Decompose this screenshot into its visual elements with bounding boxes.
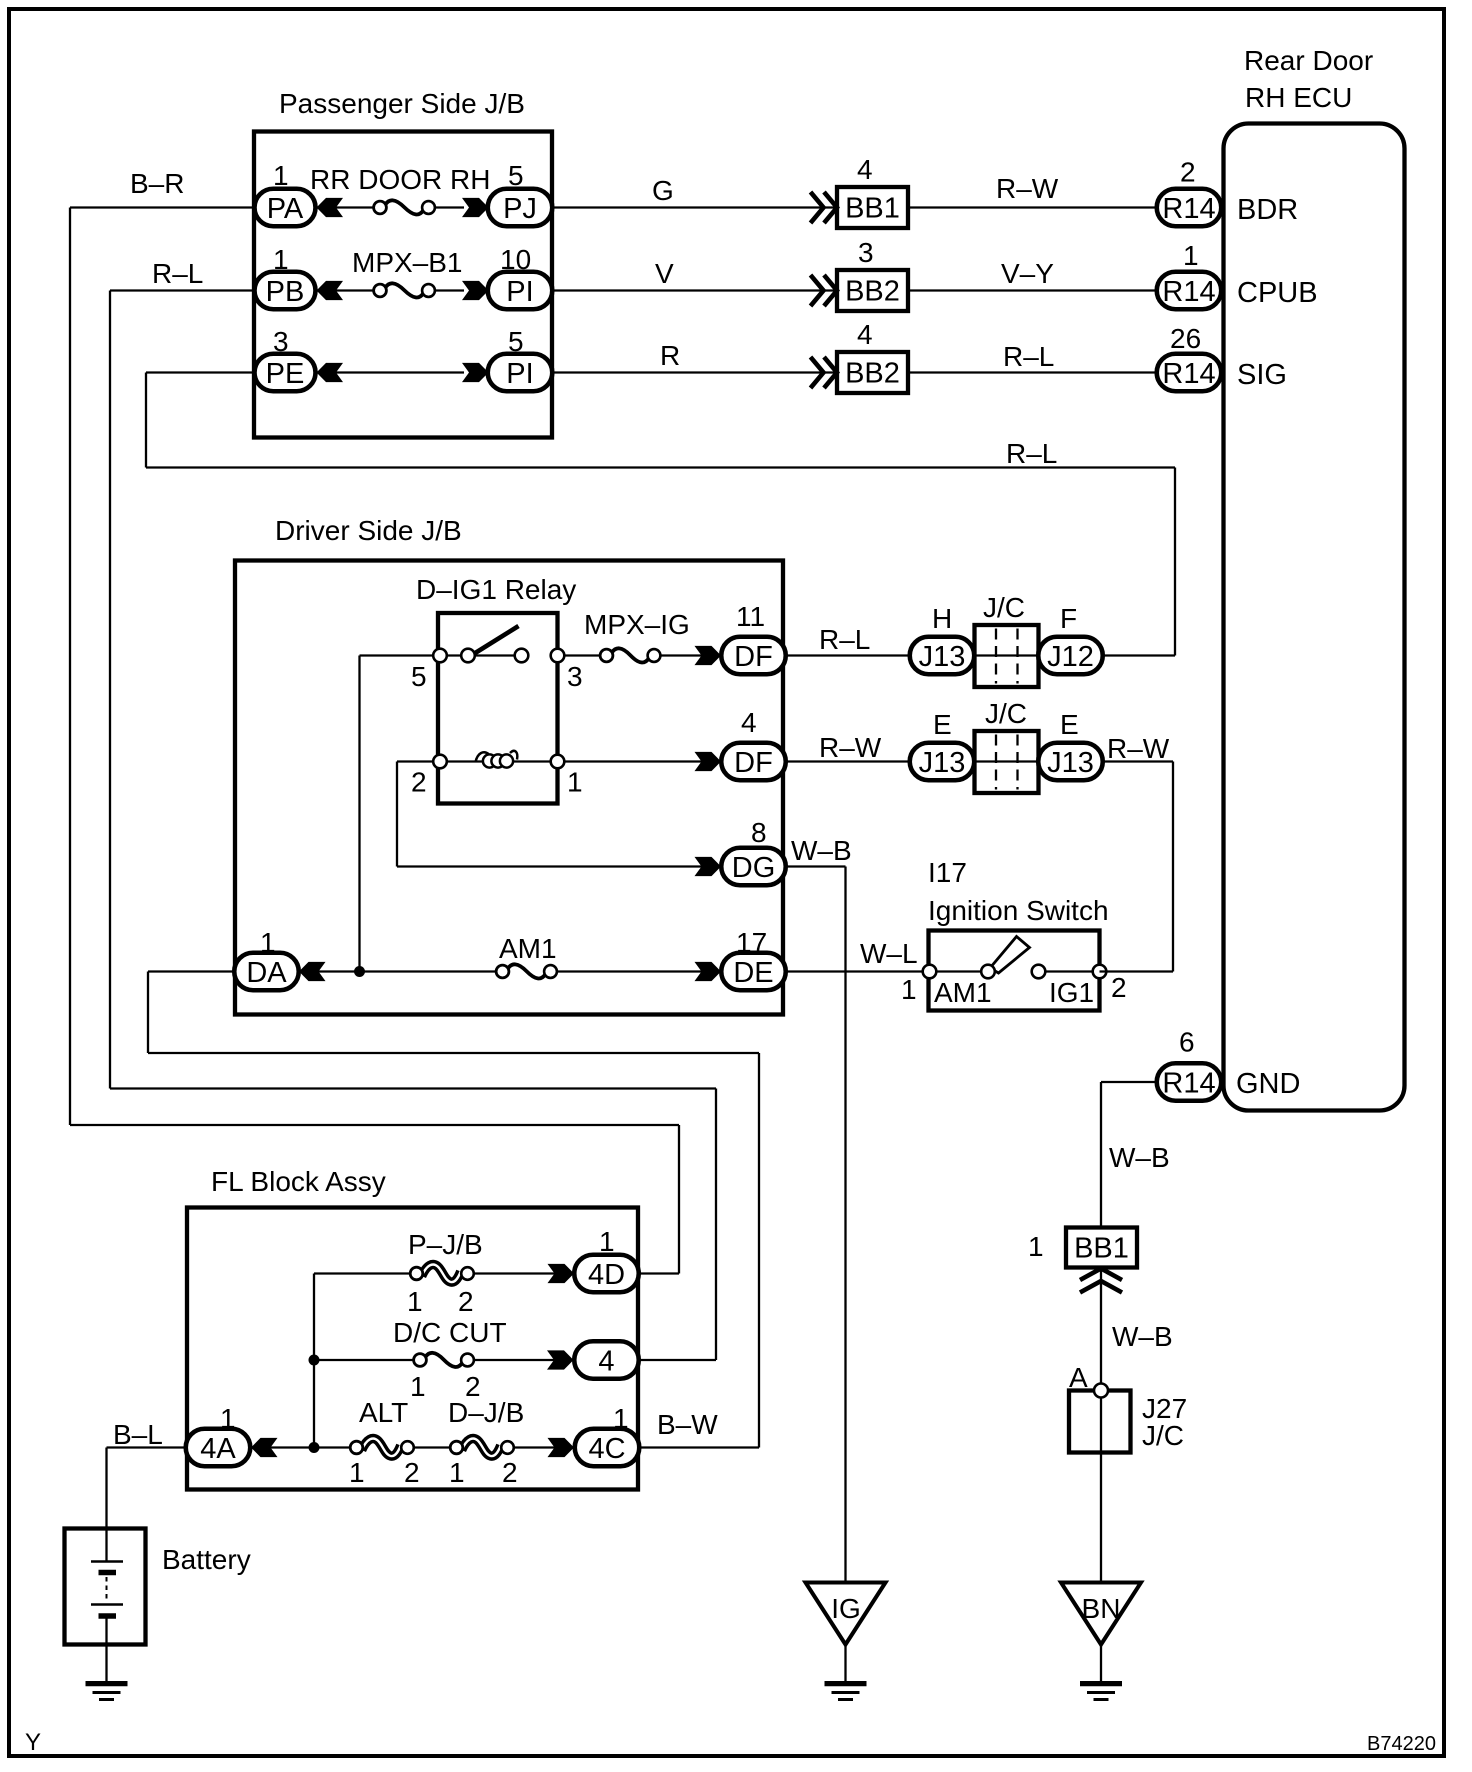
wire label R-L above PE run [1006, 438, 1057, 469]
svg-text:1: 1 [260, 927, 276, 958]
connector 4C pin 1 [548, 1403, 640, 1466]
junction block Passenger Side J/B [254, 88, 552, 438]
svg-text:4D: 4D [588, 1259, 625, 1291]
svg-text:R14: R14 [1162, 276, 1215, 308]
svg-text:3: 3 [273, 326, 289, 357]
svg-text:B–R: B–R [130, 168, 184, 199]
svg-text:5: 5 [411, 661, 427, 692]
svg-text:10: 10 [500, 244, 531, 275]
svg-text:4A: 4A [200, 1433, 236, 1465]
svg-text:Driver Side J/B: Driver Side J/B [275, 515, 462, 546]
svg-text:1: 1 [1028, 1231, 1044, 1262]
svg-text:J12: J12 [1047, 641, 1094, 673]
wire 4D to routing [639, 1272, 680, 1274]
svg-text:E: E [1060, 709, 1079, 740]
connector PI row3 pin 5 [488, 326, 553, 391]
svg-text:4: 4 [857, 319, 873, 350]
node junction D/C CUT [309, 1355, 320, 1366]
connector PA pin 1 [255, 160, 316, 226]
connector PI pin 10 [488, 244, 553, 309]
svg-text:V: V [655, 258, 674, 289]
fusible link P-J/B pins 1 2 [407, 1229, 483, 1317]
svg-text:R–L: R–L [819, 624, 870, 655]
connector PE pin 3 [255, 326, 316, 391]
wire GND R14 to BB1 [1101, 1082, 1157, 1228]
wire R PI to BB2 [552, 340, 837, 373]
connector R14 pin 2 BDR [1157, 157, 1222, 227]
svg-text:5: 5 [508, 326, 524, 357]
svg-text:J13: J13 [919, 641, 966, 673]
connector J13 pin E left [910, 709, 975, 780]
fuse AM1 [496, 933, 557, 978]
chevrons below BB1 [1080, 1269, 1122, 1293]
junction connector J/C upper [975, 592, 1039, 687]
svg-text:P–J/B: P–J/B [408, 1229, 483, 1260]
arrow into PI [462, 281, 489, 300]
svg-text:DG: DG [732, 852, 776, 884]
wire relay pin5 to node A [360, 656, 434, 972]
connector R14 pin 26 SIG [1157, 323, 1222, 391]
node junction on AM1 wire [354, 966, 365, 977]
wire ignition pin2 up to R-W [1100, 970, 1174, 972]
svg-text:J/C: J/C [983, 592, 1025, 623]
svg-text:Passenger Side J/B: Passenger Side J/B [279, 88, 525, 119]
svg-text:Rear Door: Rear Door [1244, 45, 1373, 76]
svg-text:BB2: BB2 [845, 358, 900, 390]
svg-text:BB1: BB1 [845, 193, 900, 225]
svg-text:PI: PI [506, 276, 533, 308]
svg-text:CPUB: CPUB [1237, 277, 1318, 309]
connector 4D pin 1 [548, 1226, 639, 1292]
wire FL internal vertical [313, 1274, 315, 1448]
arrow into PE [317, 363, 344, 382]
wire relay pin3 to DF [564, 654, 721, 656]
svg-text:D–J/B: D–J/B [448, 1397, 524, 1428]
svg-text:1: 1 [613, 1403, 629, 1434]
svg-text:IG1: IG1 [1049, 977, 1094, 1008]
svg-text:AM1: AM1 [499, 933, 557, 964]
wire P-J/B row [314, 1272, 574, 1274]
svg-text:1: 1 [349, 1457, 365, 1488]
svg-text:2: 2 [1111, 972, 1127, 1003]
svg-text:ALT: ALT [359, 1397, 408, 1428]
svg-text:8: 8 [751, 817, 767, 848]
wire coil to DF pin4 [564, 760, 721, 762]
svg-text:GND: GND [1236, 1068, 1300, 1100]
svg-text:4: 4 [598, 1346, 614, 1378]
fusible link ALT pins 1 2 [349, 1397, 420, 1488]
svg-text:BDR: BDR [1237, 194, 1298, 226]
svg-text:5: 5 [508, 160, 524, 191]
wire W-L DE to ignition switch [786, 938, 930, 972]
svg-text:2: 2 [458, 1286, 474, 1317]
svg-text:W–B: W–B [1112, 1321, 1173, 1352]
svg-text:Ignition Switch: Ignition Switch [928, 895, 1109, 926]
wire G PJ to BB1 [552, 175, 837, 208]
svg-text:DA: DA [246, 957, 287, 989]
connector J13 pin H [910, 603, 975, 674]
svg-text:1: 1 [407, 1286, 423, 1317]
ground IG [806, 1583, 886, 1700]
connector R14 pin 6 GND [1157, 1027, 1222, 1101]
svg-text:RH ECU: RH ECU [1245, 82, 1352, 113]
svg-text:R14: R14 [1162, 358, 1215, 390]
wire B-R from PA to FL 4D vertical [70, 168, 679, 1274]
fuse block FL Block Assy [187, 1166, 638, 1490]
arrow into DA [299, 962, 326, 981]
svg-text:D/C CUT: D/C CUT [393, 1317, 507, 1348]
junction connector J/C lower [975, 698, 1039, 793]
svg-text:E: E [933, 709, 952, 740]
svg-text:11: 11 [736, 601, 765, 632]
arrow into PI row3 [462, 363, 489, 382]
wire W-B BB1 to J27 [1101, 1268, 1173, 1583]
svg-text:1: 1 [567, 767, 583, 798]
svg-text:6: 6 [1179, 1027, 1195, 1058]
svg-text:G: G [652, 175, 674, 206]
svg-text:2: 2 [502, 1457, 518, 1488]
svg-text:RR DOOR RH: RR DOOR RH [310, 164, 490, 195]
svg-text:J13: J13 [919, 747, 966, 779]
connector 4 middle [547, 1341, 639, 1379]
wire DA to DE [299, 970, 721, 972]
wire R-W DF4 to J13 [786, 732, 910, 763]
svg-text:B–L: B–L [113, 1419, 163, 1450]
svg-text:R–L: R–L [1003, 341, 1054, 372]
svg-text:1: 1 [220, 1403, 236, 1434]
svg-text:PE: PE [266, 358, 305, 390]
connector DE pin 17 [695, 927, 786, 990]
svg-text:BB2: BB2 [845, 276, 900, 308]
svg-text:1: 1 [1183, 240, 1199, 271]
connector BB2 pin 4 [811, 319, 909, 393]
wire V PI to BB2 [552, 258, 837, 291]
svg-text:R: R [660, 340, 680, 371]
svg-text:D–IG1 Relay: D–IG1 Relay [416, 574, 576, 605]
wire R-L from PE to J12 [146, 373, 1175, 656]
svg-text:H: H [932, 603, 952, 634]
svg-text:V–Y: V–Y [1001, 258, 1054, 289]
arrow into PA [317, 198, 344, 217]
wire B-L battery to 4A [107, 1419, 188, 1561]
svg-text:17: 17 [736, 927, 767, 958]
svg-text:J/C: J/C [1142, 1420, 1184, 1451]
battery [65, 1529, 251, 1683]
wire R-L BB2 to R14 [908, 341, 1157, 373]
wire DF11 J13 through J/C to J12 [910, 654, 1175, 656]
svg-text:2: 2 [411, 767, 427, 798]
svg-text:R–W: R–W [996, 173, 1059, 204]
fuse MPX-B1 [352, 247, 463, 297]
connector J13 pin E right [1038, 709, 1103, 780]
page letter Y [25, 1729, 41, 1756]
connector DF pin 4 [695, 707, 786, 780]
svg-text:DE: DE [733, 957, 773, 989]
svg-text:F: F [1060, 603, 1077, 634]
svg-text:PI: PI [506, 358, 533, 390]
wire R-W BB1 to R14 [908, 173, 1157, 208]
svg-text:PA: PA [267, 193, 304, 225]
wire ALT row [251, 1446, 574, 1448]
svg-text:4C: 4C [588, 1433, 625, 1465]
connector PB pin 1 [255, 244, 316, 309]
svg-text:R–W: R–W [819, 732, 882, 763]
wire W-B DG to IG ground [786, 835, 852, 1583]
wire label W-B upper [1109, 1142, 1170, 1173]
svg-text:4: 4 [857, 154, 873, 185]
svg-text:Y: Y [25, 1729, 41, 1756]
svg-text:MPX–B1: MPX–B1 [352, 247, 463, 278]
fuse MPX-IG [584, 609, 690, 662]
wire R-L from PB to FL 4 vertical [110, 258, 716, 1360]
svg-text:1: 1 [599, 1226, 615, 1257]
wire R-L DF to J13 [786, 624, 910, 656]
svg-text:I17: I17 [928, 857, 967, 888]
relay D-IG1 [411, 574, 583, 804]
svg-text:PB: PB [266, 276, 305, 308]
svg-text:2: 2 [1180, 157, 1196, 188]
connector DG pin 8 [695, 817, 786, 885]
node junction ALT [309, 1442, 320, 1453]
svg-text:1: 1 [901, 974, 917, 1005]
connector 4A pin 1 [186, 1403, 251, 1466]
ignition switch I17 [901, 857, 1127, 1011]
svg-text:W–B: W–B [1109, 1142, 1170, 1173]
connector DA pin 1 [234, 927, 299, 990]
wire PA to PJ internal [316, 206, 464, 208]
wire D/C CUT row [314, 1359, 574, 1361]
svg-text:R14: R14 [1162, 1068, 1215, 1100]
junction block Driver Side J/B [235, 515, 783, 1015]
connector DF pin 11 [695, 601, 786, 674]
fuse D/C CUT pins 1 2 [393, 1317, 507, 1402]
svg-text:SIG: SIG [1237, 359, 1287, 391]
connector J12 pin F [1038, 603, 1103, 674]
connector BB2 pin 3 [811, 237, 909, 311]
svg-text:J13: J13 [1047, 747, 1094, 779]
wire V-Y BB2 to R14 [908, 258, 1157, 291]
svg-text:R–L: R–L [152, 258, 203, 289]
svg-text:1: 1 [449, 1457, 465, 1488]
fuse RR DOOR RH [310, 164, 490, 214]
svg-text:B74220: B74220 [1367, 1733, 1436, 1755]
svg-text:1: 1 [410, 1371, 426, 1402]
svg-text:IG: IG [831, 1593, 861, 1624]
svg-text:J/C: J/C [985, 698, 1027, 729]
svg-text:B–W: B–W [657, 1409, 718, 1440]
svg-text:BN: BN [1082, 1593, 1121, 1624]
wire 4 to routing [639, 1359, 717, 1361]
ECU Rear Door RH [1224, 45, 1405, 1111]
ground BN [1061, 1583, 1141, 1700]
wire relay pin2 to DG [397, 762, 721, 867]
connector BB1 bottom pin 1 [1028, 1228, 1137, 1268]
svg-text:1: 1 [273, 160, 289, 191]
wire B-W 4C to routing [639, 1409, 760, 1448]
wire PE to PI internal [316, 371, 464, 373]
connector R14 pin 1 CPUB [1157, 240, 1222, 309]
wire PB to PI internal [316, 289, 464, 291]
arrow into PB [317, 281, 344, 300]
svg-text:Battery: Battery [162, 1544, 251, 1575]
svg-text:26: 26 [1170, 323, 1201, 354]
arrow into PJ [462, 198, 489, 217]
wire B-W DA to FL 4C [148, 972, 759, 1448]
svg-text:MPX–IG: MPX–IG [584, 609, 690, 640]
svg-text:PJ: PJ [503, 193, 537, 225]
svg-text:A: A [1069, 1362, 1088, 1393]
svg-text:3: 3 [858, 237, 874, 268]
fusible link D-J/B pins 1 2 [448, 1397, 524, 1488]
svg-text:DF: DF [734, 747, 773, 779]
connector BB1 pin 4 [811, 154, 909, 228]
ground battery [86, 1684, 128, 1700]
svg-text:3: 3 [567, 661, 583, 692]
svg-text:R–W: R–W [1107, 733, 1170, 764]
svg-text:R14: R14 [1162, 193, 1215, 225]
svg-text:FL Block Assy: FL Block Assy [211, 1166, 386, 1197]
svg-text:4: 4 [741, 707, 757, 738]
svg-text:W–B: W–B [791, 835, 852, 866]
arrow into 4A [251, 1438, 278, 1457]
svg-text:R–L: R–L [1006, 438, 1057, 469]
svg-text:AM1: AM1 [934, 977, 992, 1008]
svg-text:W–L: W–L [860, 938, 918, 969]
svg-text:BB1: BB1 [1074, 1233, 1129, 1265]
svg-text:1: 1 [273, 244, 289, 275]
figure number B74220 [1367, 1733, 1436, 1755]
wire R-W J13 to ignition [910, 733, 1173, 972]
connector PJ pin 5 [488, 160, 553, 226]
svg-text:DF: DF [734, 641, 773, 673]
junction connector J27 J/C pin A [1069, 1362, 1187, 1453]
svg-text:2: 2 [404, 1457, 420, 1488]
